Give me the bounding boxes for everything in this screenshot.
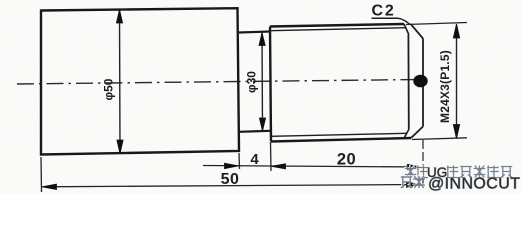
chamfer slant bottom <box>411 127 423 139</box>
arrow 20 right (pointing right) <box>408 164 422 169</box>
thread left edge / shoulder <box>270 27 271 142</box>
neck top edge <box>239 32 270 33</box>
M24 dimension line <box>456 25 458 139</box>
extension line below thread left edge <box>270 142 273 171</box>
extension line left (50) <box>40 157 43 192</box>
big cylinder body (phi50) <box>41 8 239 154</box>
centerline <box>17 80 420 85</box>
thread bottom minor line <box>271 133 407 136</box>
neck bottom edge <box>239 131 270 132</box>
arrow 4 right / 20 left (pointing left) <box>272 164 286 169</box>
thread bottom major line <box>271 138 411 142</box>
arrow phi50 top <box>116 10 122 24</box>
thread runout slant bottom <box>404 130 409 139</box>
dimension line phi30 <box>261 33 264 131</box>
extension line right end <box>422 140 424 188</box>
arrow 4 left (outside, pointing right) <box>225 163 239 168</box>
arrow phi50 bottom <box>117 140 123 154</box>
C2 underline + leader <box>372 18 411 24</box>
thread end line <box>407 35 409 130</box>
arrow M24 top <box>453 24 459 38</box>
M24 top extension line <box>406 23 467 25</box>
watermark row1 CJK strokes (white emboss) <box>404 165 511 177</box>
M24 bottom extension line <box>412 138 467 140</box>
dimension line phi50 <box>119 10 122 153</box>
dimension line 50 <box>43 185 421 187</box>
ink blob on centerline <box>413 75 427 88</box>
arrow M24 bottom <box>453 125 459 139</box>
thread runout slant top <box>404 24 409 35</box>
watermark row1 CJK strokes (gray) <box>405 166 512 178</box>
thread top major line <box>270 24 404 27</box>
watermark row2 CJK strokes (white emboss) <box>400 175 424 187</box>
arrow phi30 bottom <box>259 118 265 131</box>
end face <box>422 39 424 127</box>
extension line below big cylinder right edge <box>238 153 241 169</box>
watermark: two rows, embossed gray, fake CJK + latin <box>400 165 520 193</box>
arrow 50 left (pointing left) <box>42 184 56 189</box>
dimension line 4 / 20 <box>203 166 422 168</box>
chamfer slant top <box>411 24 424 39</box>
watermark row2 CJK strokes (gray) <box>401 176 425 188</box>
thread top minor line <box>271 28 407 31</box>
scan noise overlay <box>0 0 1 1</box>
arrow phi30 top <box>259 33 265 46</box>
arrow 50 right (pointing right) <box>407 182 421 187</box>
